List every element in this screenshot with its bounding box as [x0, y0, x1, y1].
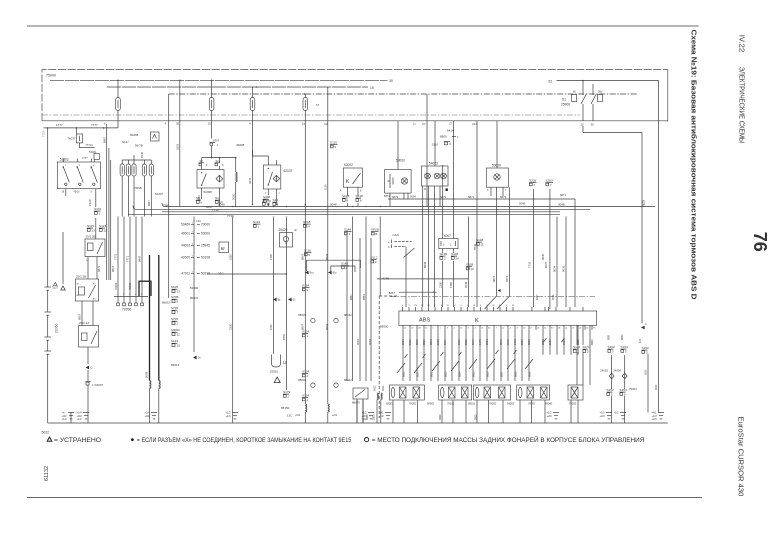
bus 15	[107, 86, 374, 90]
svg-text:S152: S152	[608, 345, 616, 349]
ground stack 24000	[614, 411, 627, 419]
svg-text:+0/1: +0/1	[332, 413, 338, 417]
svg-text:85150: 85150	[281, 406, 290, 410]
svg-text:70000: 70000	[201, 223, 210, 227]
svg-text:C2: C2	[324, 122, 328, 126]
connector under 62037 pin b	[273, 198, 279, 207]
svg-text:5544: 5544	[473, 243, 477, 250]
svg-text:=3/2: =3/2	[362, 417, 368, 421]
svg-text:SF18: SF18	[342, 194, 350, 198]
row of bottom arrows	[273, 298, 296, 302]
svg-text:1: 1	[277, 203, 279, 207]
svg-text:3333: 3333	[176, 144, 180, 150]
wire 4447 from fuse3	[252, 150, 253, 205]
connector 70096	[114, 294, 148, 312]
svg-text:SF18: SF18	[356, 194, 364, 198]
svg-text:B145: B145	[140, 151, 144, 158]
svg-text:5: 5	[646, 351, 648, 355]
svg-text:S11B: S11B	[466, 263, 473, 267]
left riser bundle labels	[97, 122, 115, 281]
svg-text:15: 15	[177, 344, 181, 348]
svg-text:1130: 1130	[269, 324, 273, 330]
svg-text:1: 1	[577, 350, 579, 354]
connector SF18 under 62002 a	[342, 194, 350, 203]
relay 25/1.2B	[85, 235, 105, 263]
svg-text:7772: 7772	[114, 253, 118, 260]
mass point circles row1	[298, 313, 352, 323]
svg-text:S9003: S9003	[171, 328, 180, 332]
wire to U symbol	[269, 217, 273, 355]
page number 76	[750, 232, 770, 252]
svg-text:2: 2	[457, 136, 459, 139]
svg-text:7771a: 7771a	[85, 143, 93, 147]
svg-text:4: 4	[306, 374, 308, 378]
svg-text:X3: X3	[414, 305, 417, 307]
svg-text:6871: 6871	[392, 195, 399, 199]
svg-text:1: 1	[450, 243, 452, 247]
ECU top pins	[403, 307, 584, 311]
svg-text:ЭЛЕКТРИЧЕСКИЕ СХЕМЫ: ЭЛЕКТРИЧЕСКИЕ СХЕМЫ	[738, 67, 747, 144]
svg-text:78033: 78033	[569, 402, 577, 406]
connector S123a	[99, 224, 107, 233]
svg-text:9035: 9035	[562, 265, 566, 272]
svg-text:20060: 20060	[55, 323, 59, 333]
svg-text:3: 3	[625, 350, 627, 354]
svg-text:8150: 8150	[282, 333, 286, 340]
svg-text:8864: 8864	[362, 294, 366, 300]
svg-text:+1/2: +1/2	[62, 417, 68, 421]
svg-text:8867: 8867	[102, 137, 106, 143]
unit 50029	[486, 121, 508, 196]
svg-text:0048: 0048	[558, 202, 565, 206]
main ground bus	[48, 422, 668, 424]
power band frame	[42, 70, 668, 122]
svg-text:5: 5	[587, 350, 589, 354]
legend circle symbol	[365, 438, 369, 442]
wire bundle 70096 risers	[114, 217, 143, 297]
svg-text:= ЕСЛИ РАЗЪЕМ «Х» НЕ СОЕДИНЕН,: = ЕСЛИ РАЗЪЕМ «Х» НЕ СОЕДИНЕН, КОРОТКОЕ …	[137, 437, 352, 444]
connector X007	[439, 234, 458, 249]
bus 7730 b	[128, 214, 560, 218]
relay 25/1.3B	[76, 275, 99, 302]
pressure sensor 88070	[352, 388, 368, 423]
svg-text:50029: 50029	[492, 163, 501, 167]
svg-text:3: 3	[475, 328, 477, 330]
svg-text:Схема №19: Базовая антиблокиро: Схема №19: Базовая антиблокировочная сис…	[690, 30, 699, 301]
svg-text:1B: 1B	[418, 328, 421, 330]
svg-text:+1/3: +1/3	[226, 414, 232, 418]
svg-text:+2/3: +2/3	[652, 417, 658, 421]
svg-text:2: 2	[177, 322, 179, 326]
wires right middle verticals	[553, 217, 566, 308]
slash marks on wires	[405, 338, 565, 358]
svg-text:S133: S133	[171, 339, 178, 343]
wire drop C2	[323, 87, 328, 207]
svg-text:18: 18	[427, 305, 430, 307]
svg-text:4: 4	[165, 122, 167, 126]
svg-text:1: 1	[117, 294, 119, 296]
thick wire 8812 down left	[149, 255, 151, 381]
svg-text:X4: X4	[488, 328, 491, 330]
svg-text:S117: S117	[122, 140, 129, 144]
svg-text:5: 5	[141, 294, 143, 296]
svg-text:12: 12	[103, 229, 107, 233]
svg-text:54023: 54023	[429, 161, 438, 165]
fuse 76037	[67, 128, 99, 162]
svg-text:8: 8	[93, 165, 95, 167]
svg-text:8864: 8864	[325, 253, 329, 260]
svg-text:S?: S?	[316, 103, 320, 107]
ground stack sensors B	[547, 411, 560, 419]
svg-text:8847: 8847	[138, 255, 142, 262]
sensor row labels	[386, 402, 577, 406]
diagonal junctions above sensors	[397, 359, 533, 373]
svg-text:S70B: S70B	[171, 295, 178, 299]
lower connector column S105	[162, 285, 199, 367]
icon box 57	[219, 242, 229, 253]
svg-text:0048: 0048	[330, 202, 337, 206]
wire drop 30a	[176, 80, 180, 206]
svg-text:N: N	[307, 225, 309, 229]
svg-text:50108: 50108	[201, 256, 210, 260]
svg-text:7: 7	[505, 189, 507, 192]
svg-text:88011: 88011	[468, 402, 476, 406]
triangle removed marker	[274, 377, 280, 382]
svg-text:30: 30	[591, 122, 595, 126]
wires 8872 6872 with crossover	[485, 187, 510, 309]
svg-text:1: 1	[257, 225, 259, 229]
connectors above 52098	[199, 158, 225, 170]
ground stack left A	[62, 411, 75, 421]
svg-text:61132: 61132	[44, 466, 50, 481]
svg-text:1: 1	[440, 328, 442, 330]
svg-text:TP: TP	[266, 203, 270, 207]
svg-text:IV.22: IV.22	[738, 35, 747, 53]
svg-text:B: B	[375, 232, 377, 236]
svg-text:53000: 53000	[396, 159, 405, 163]
U shaped probe symbol	[270, 355, 286, 374]
svg-text:16: 16	[460, 328, 463, 330]
coil mid b	[328, 404, 338, 423]
connector S154 4	[302, 370, 310, 379]
svg-text:4: 4	[402, 305, 404, 307]
svg-text:Gt: Gt	[293, 298, 296, 302]
wires under X007 to ECU	[438, 249, 453, 307]
svg-text:2: 2	[444, 257, 446, 261]
svg-text:S154: S154	[302, 330, 310, 334]
svg-text:8: 8	[360, 190, 362, 193]
connector S202	[529, 179, 537, 188]
svg-text:8800: 8800	[440, 135, 447, 139]
coil labels bottom	[366, 414, 477, 420]
svg-text:18: 18	[62, 191, 65, 194]
svg-text:Ж: Ж	[294, 228, 297, 232]
connector S101	[94, 207, 102, 216]
wire drop 4	[165, 94, 169, 298]
wire drop C7	[422, 94, 427, 207]
svg-text:13: 13	[177, 290, 181, 294]
legend bullet symbol	[131, 438, 134, 441]
svg-text:8: 8	[360, 199, 362, 203]
svg-text:S307: S307	[213, 139, 220, 143]
bus 7730 a	[162, 208, 560, 212]
svg-text:8867: 8867	[300, 253, 304, 260]
svg-text:2: 2	[454, 328, 456, 330]
svg-text:88022: 88022	[344, 378, 352, 382]
wire 6871 horizontal	[388, 195, 575, 199]
svg-text:K: K	[475, 318, 479, 324]
svg-text:0004: 0004	[368, 339, 372, 345]
svg-text:44003: 44003	[181, 244, 190, 248]
svg-text:S123: S123	[99, 224, 107, 228]
svg-text:88001: 88001	[427, 402, 435, 406]
svg-text:7730: 7730	[212, 208, 219, 212]
sensor row ground leads	[357, 400, 578, 423]
wire right vertical 0000	[667, 121, 669, 123]
svg-text:78052: 78052	[409, 402, 417, 406]
svg-text:0000: 0000	[474, 414, 477, 420]
svg-text:14: 14	[544, 328, 547, 330]
svg-text:6: 6	[450, 142, 452, 146]
svg-text:88033: 88033	[298, 313, 306, 317]
svg-text:b: b	[388, 246, 390, 249]
page top rule	[27, 25, 699, 27]
svg-text:S110: S110	[432, 143, 439, 147]
svg-text:1c: 1c	[413, 122, 416, 126]
svg-text:11: 11	[481, 328, 484, 330]
svg-text:S152: S152	[607, 388, 615, 392]
svg-text:50469: 50469	[181, 223, 190, 227]
svg-text:6871: 6871	[384, 194, 390, 198]
svg-text:0000: 0000	[645, 369, 648, 375]
svg-text:S148: S148	[451, 252, 459, 256]
svg-text:30: 30	[86, 260, 89, 262]
svg-text:+2/3: +2/3	[547, 414, 553, 418]
svg-text:53000: 53000	[190, 286, 199, 290]
connector S203	[546, 179, 554, 188]
svg-text:7002b: 7002b	[134, 186, 142, 190]
relay D1 25906	[561, 81, 603, 127]
connector S110 left	[330, 141, 338, 150]
coils 0002 0001	[374, 385, 385, 423]
mass point circles row2	[298, 378, 352, 387]
svg-text:+2/3: +2/3	[600, 414, 606, 418]
ground stack under thick wires	[145, 411, 158, 419]
svg-text:19: 19	[572, 328, 575, 330]
valve block 4	[517, 385, 550, 400]
svg-text:8840: 8840	[590, 339, 594, 345]
diode 24000	[613, 355, 627, 389]
svg-text:1: 1	[279, 193, 281, 195]
svg-text:7772: 7772	[42, 131, 46, 137]
svg-text:9: 9	[408, 305, 410, 307]
svg-text:30: 30	[389, 79, 393, 83]
band lower dash-dot line	[42, 114, 580, 116]
svg-text:25/1.3B: 25/1.3B	[76, 275, 86, 279]
coil mid a	[295, 404, 307, 423]
svg-text:88032: 88032	[344, 313, 352, 317]
wires diodes to ground	[612, 354, 648, 423]
arrow at end of 7675	[641, 322, 647, 329]
svg-text:3: 3	[79, 165, 81, 167]
svg-text:+3/2: +3/2	[145, 414, 151, 418]
svg-text:5: 5	[308, 253, 310, 257]
svg-text:50068: 50068	[130, 133, 139, 137]
svg-text:0008: 0008	[145, 371, 149, 378]
svg-text:7732: 7732	[528, 261, 532, 268]
svg-text:3380: 3380	[163, 204, 169, 208]
wire switch to relay coil	[66, 189, 96, 239]
wire 8867b down mid	[300, 207, 305, 405]
connector S112	[371, 256, 378, 265]
junction dots on bus 0048	[232, 206, 443, 207]
row 47011 line extension	[207, 273, 287, 274]
wire 924B segment	[377, 277, 468, 281]
svg-text:= УСТРАНЕНО: = УСТРАНЕНО	[54, 437, 101, 444]
long wire 2320 down	[228, 217, 232, 424]
connector translation list	[181, 219, 224, 276]
svg-text:25906: 25906	[561, 103, 570, 107]
svg-text:8: 8	[222, 164, 224, 167]
svg-text:Bb: Bb	[278, 298, 282, 302]
battery 20060	[44, 128, 58, 423]
svg-text:0000: 0000	[373, 414, 376, 420]
svg-text:62037: 62037	[284, 169, 293, 173]
svg-text:SF1B: SF1B	[371, 228, 379, 232]
svg-text:1 S3007: 1 S3007	[92, 383, 104, 387]
svg-text:8891: 8891	[608, 334, 611, 340]
svg-text:7: 7	[506, 305, 508, 307]
svg-text:7675: 7675	[642, 200, 646, 207]
svg-text:7200B: 7200B	[115, 282, 118, 290]
svg-text:1: 1	[348, 232, 350, 236]
svg-text:15: 15	[370, 86, 374, 90]
wire 8864 down mid	[325, 207, 329, 405]
svg-text:6871: 6871	[468, 195, 475, 199]
svg-text:6871: 6871	[500, 195, 507, 199]
svg-text:6049: 6049	[464, 281, 468, 288]
svg-text:88090: 88090	[380, 325, 389, 329]
svg-text:2: 2	[434, 305, 436, 307]
fuse F4	[302, 94, 308, 207]
svg-text:13C: 13C	[287, 414, 292, 418]
svg-text:9030: 9030	[541, 253, 545, 260]
svg-text:12: 12	[177, 333, 181, 337]
wire 8847 segment	[389, 291, 437, 295]
svg-text:S101: S101	[94, 207, 102, 211]
svg-text:9: 9	[206, 164, 208, 167]
svg-text:a1: a1	[404, 328, 407, 330]
svg-text:88043: 88043	[545, 402, 553, 406]
wires between relays	[78, 301, 94, 326]
cluster 5414 8800 S110	[432, 129, 459, 147]
connector SF18 N	[303, 220, 311, 229]
svg-text:4: 4	[645, 322, 647, 326]
svg-text:S112: S112	[371, 256, 378, 260]
svg-text:8: 8	[447, 328, 449, 330]
svg-text:6871: 6871	[97, 265, 101, 272]
svg-text:49008: 49008	[236, 143, 245, 147]
svg-text:0048: 0048	[519, 202, 525, 206]
connector S3007	[86, 370, 104, 423]
svg-text:S154: S154	[302, 370, 310, 374]
svg-text:B15: B15	[333, 271, 338, 275]
wire 6049	[464, 217, 468, 308]
svg-text:7: 7	[533, 183, 535, 187]
svg-text:ABS: ABS	[419, 318, 430, 324]
svg-text:SF05: SF05	[262, 198, 270, 202]
svg-text:4: 4	[135, 294, 137, 296]
svg-text:76037: 76037	[67, 137, 75, 141]
svg-text:2: 2	[123, 294, 125, 296]
svg-text:U: U	[283, 360, 286, 365]
svg-text:8867: 8867	[349, 294, 353, 300]
svg-text:2320: 2320	[228, 254, 232, 260]
svg-text:1130: 1130	[269, 254, 273, 260]
connector S154 1	[302, 330, 310, 339]
svg-text:CAN: CAN	[393, 233, 399, 237]
svg-text:+1/2: +1/2	[77, 417, 83, 421]
svg-text:4447: 4447	[248, 177, 252, 184]
svg-text:2: 2	[306, 398, 308, 402]
bus 30	[50, 79, 393, 83]
svg-text:EuroStar CURSOR 430: EuroStar CURSOR 430	[737, 417, 746, 497]
svg-text:S2: S2	[216, 159, 220, 163]
svg-text:57: 57	[221, 247, 225, 251]
svg-text:S153: S153	[620, 388, 628, 392]
page bottom rule	[27, 497, 702, 499]
svg-text:C1: C1	[90, 366, 94, 370]
svg-text:15: 15	[581, 122, 585, 126]
legend text ground location	[372, 436, 645, 444]
arrow D8	[193, 356, 197, 360]
diode 24002	[600, 355, 614, 389]
svg-text:b: b	[487, 189, 489, 192]
wire below relay to C1 arrow	[87, 347, 89, 364]
connector under 62007 pin b	[215, 196, 223, 205]
svg-text:15: 15	[421, 305, 424, 307]
svg-text:1: 1	[98, 212, 100, 216]
rotated footer EuroStar CURSOR 430	[737, 417, 746, 497]
svg-text:S1: S1	[215, 196, 219, 200]
connector S141	[573, 345, 581, 354]
wire bus33 right edge down to ground N1	[658, 81, 660, 413]
svg-text:80037: 80037	[190, 296, 199, 300]
svg-text:+0/2: +0/2	[295, 413, 301, 417]
svg-text:33C: 33C	[218, 272, 224, 276]
svg-text:M: M	[424, 188, 426, 191]
svg-text:+1/2: +1/2	[614, 411, 620, 415]
wire under 52098 pins	[197, 188, 219, 207]
svg-text:5022: 5022	[42, 431, 50, 435]
svg-text:3: 3	[129, 294, 131, 296]
wire 1777 7777 top left	[42, 123, 118, 137]
svg-text:13: 13	[91, 229, 95, 233]
svg-text:S705: S705	[171, 317, 178, 321]
connector S150	[642, 346, 650, 355]
dashed enclosure hydromodulator	[379, 296, 398, 418]
svg-text:S154: S154	[302, 394, 310, 398]
svg-text:X2: X2	[499, 305, 502, 307]
svg-text:5000: 5000	[231, 193, 235, 200]
svg-text:70096: 70096	[122, 308, 132, 312]
svg-text:4: 4	[510, 328, 512, 330]
svg-text:8847: 8847	[389, 291, 396, 295]
svg-text:18: 18	[558, 328, 561, 330]
unit 25425	[279, 228, 298, 247]
svg-text:52302: 52302	[60, 157, 69, 161]
svg-text:1: 1	[217, 144, 219, 147]
